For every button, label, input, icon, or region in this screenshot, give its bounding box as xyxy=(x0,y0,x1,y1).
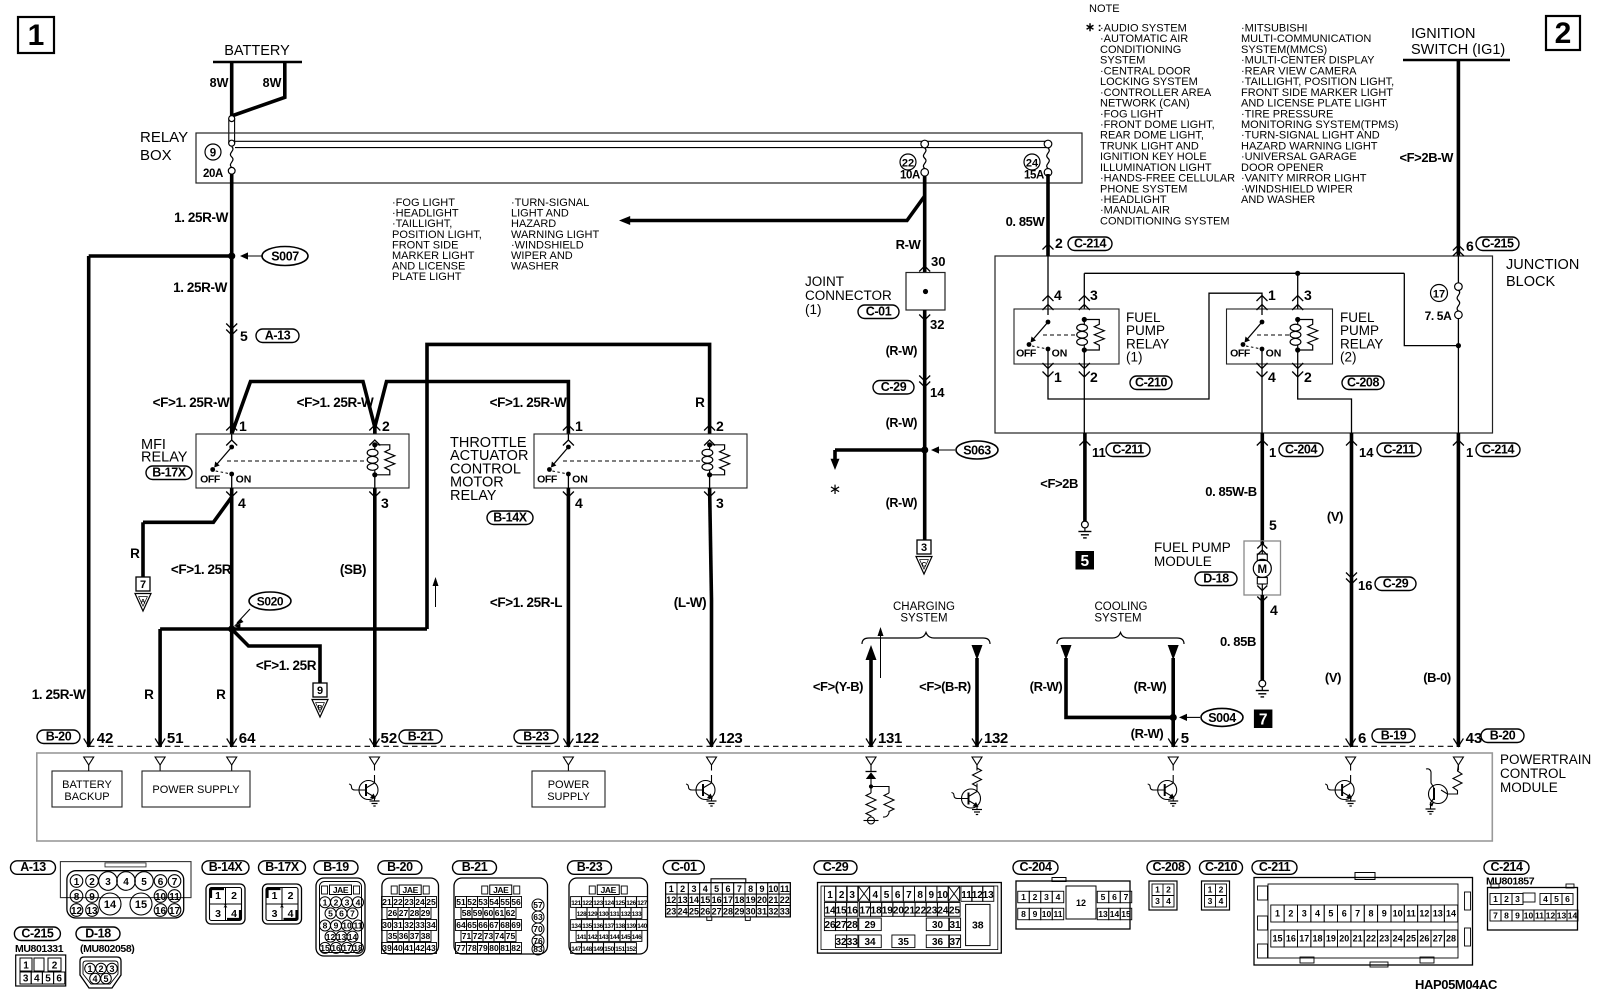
svg-text:20: 20 xyxy=(1339,934,1349,944)
svg-text:x: x xyxy=(280,903,284,910)
svg-text:19: 19 xyxy=(746,895,756,905)
svg-text:5: 5 xyxy=(714,884,719,894)
svg-text:29: 29 xyxy=(734,907,744,917)
svg-text:36: 36 xyxy=(399,931,409,941)
svg-text:C-204: C-204 xyxy=(1285,442,1317,456)
svg-text:12: 12 xyxy=(666,895,676,905)
svg-text:B-14X: B-14X xyxy=(493,510,527,524)
svg-text:JAE: JAE xyxy=(403,885,419,895)
svg-text:ON: ON xyxy=(1266,348,1282,360)
svg-text:16: 16 xyxy=(712,895,722,905)
svg-text:10: 10 xyxy=(768,884,778,894)
svg-text:2: 2 xyxy=(231,890,237,902)
svg-text:1: 1 xyxy=(1208,885,1213,895)
svg-text:1: 1 xyxy=(74,877,80,888)
svg-text:MU801331: MU801331 xyxy=(15,943,64,955)
svg-text:3: 3 xyxy=(716,495,724,511)
svg-text:122: 122 xyxy=(575,730,599,747)
svg-text:135: 135 xyxy=(582,923,592,930)
svg-text:JAE: JAE xyxy=(333,885,349,895)
svg-text:16: 16 xyxy=(331,943,341,953)
svg-text:6: 6 xyxy=(1565,894,1570,904)
svg-text:12: 12 xyxy=(972,890,984,901)
svg-text:4: 4 xyxy=(238,495,246,511)
svg-text:14: 14 xyxy=(1446,909,1456,919)
svg-text:7: 7 xyxy=(172,877,178,888)
svg-text:C: C xyxy=(922,562,927,569)
svg-text:C-211: C-211 xyxy=(1259,860,1291,874)
svg-text:2: 2 xyxy=(1304,369,1312,385)
svg-text:32: 32 xyxy=(930,317,944,332)
svg-text:126: 126 xyxy=(626,900,636,907)
svg-text:64: 64 xyxy=(239,730,256,747)
svg-text:57: 57 xyxy=(533,900,543,910)
svg-text:<F>1. 25R: <F>1. 25R xyxy=(171,562,232,577)
svg-text:∗: ∗ xyxy=(829,481,842,498)
svg-text:1: 1 xyxy=(87,964,92,974)
svg-text:S020: S020 xyxy=(257,595,284,609)
svg-text:19: 19 xyxy=(882,905,894,916)
svg-text:11: 11 xyxy=(1535,911,1544,921)
svg-text:23: 23 xyxy=(404,897,414,907)
svg-text:16: 16 xyxy=(1286,934,1296,944)
svg-text:28: 28 xyxy=(847,920,859,931)
svg-text:POWER: POWER xyxy=(548,779,590,791)
svg-text:WASHER: WASHER xyxy=(511,261,559,273)
svg-text:22: 22 xyxy=(780,895,790,905)
svg-text:60: 60 xyxy=(484,908,494,918)
svg-text:S063: S063 xyxy=(963,444,991,458)
svg-text:147: 147 xyxy=(571,946,581,953)
svg-text:B-20: B-20 xyxy=(1490,728,1516,742)
svg-text:25: 25 xyxy=(1406,934,1416,944)
svg-text:1: 1 xyxy=(1466,445,1473,460)
svg-text:77: 77 xyxy=(456,943,466,953)
svg-text:(B-0): (B-0) xyxy=(1423,670,1451,685)
svg-text:5: 5 xyxy=(328,909,333,919)
svg-text:17: 17 xyxy=(1433,289,1445,301)
svg-text:22: 22 xyxy=(915,905,927,916)
svg-text:14: 14 xyxy=(930,385,945,400)
svg-text:129: 129 xyxy=(588,911,598,918)
svg-text:(R-W): (R-W) xyxy=(1030,679,1063,694)
svg-text:38: 38 xyxy=(421,931,431,941)
svg-text:14: 14 xyxy=(104,899,117,911)
svg-text:6: 6 xyxy=(1466,238,1474,254)
svg-text:8: 8 xyxy=(1504,911,1509,921)
svg-text:3: 3 xyxy=(1302,909,1307,919)
svg-text:BATTERY: BATTERY xyxy=(224,43,290,59)
svg-text:C-01: C-01 xyxy=(866,304,892,318)
svg-text:42: 42 xyxy=(97,730,114,747)
svg-text:134: 134 xyxy=(571,923,581,930)
svg-text:20A: 20A xyxy=(203,168,223,180)
svg-text:(R-W): (R-W) xyxy=(1131,726,1164,741)
svg-text:3: 3 xyxy=(105,877,111,888)
svg-text:139: 139 xyxy=(626,923,636,930)
svg-text:124: 124 xyxy=(604,900,614,907)
svg-text:1: 1 xyxy=(272,890,278,902)
svg-text:20: 20 xyxy=(893,905,905,916)
svg-text:12: 12 xyxy=(1076,898,1086,908)
svg-text:A-13: A-13 xyxy=(20,860,46,874)
svg-text:R-W: R-W xyxy=(896,237,922,252)
svg-text:13: 13 xyxy=(337,932,347,942)
svg-text:10: 10 xyxy=(1524,911,1534,921)
svg-text:A-13: A-13 xyxy=(265,328,291,342)
svg-text:2: 2 xyxy=(1219,885,1224,895)
svg-text:22: 22 xyxy=(1366,934,1376,944)
svg-text:3: 3 xyxy=(1155,896,1160,906)
svg-text:2: 2 xyxy=(1090,369,1098,385)
svg-text:R: R xyxy=(695,395,705,410)
svg-text:10: 10 xyxy=(342,921,352,931)
svg-text:33: 33 xyxy=(415,920,425,930)
svg-text:B-23: B-23 xyxy=(577,860,603,874)
svg-text:CONTROL: CONTROL xyxy=(1500,766,1566,781)
svg-text:143: 143 xyxy=(599,934,609,941)
svg-text:18: 18 xyxy=(1313,934,1323,944)
svg-text:131: 131 xyxy=(610,911,620,918)
svg-text:55: 55 xyxy=(500,897,510,907)
svg-text:65: 65 xyxy=(467,920,477,930)
svg-text:16: 16 xyxy=(1358,578,1372,593)
svg-text:14: 14 xyxy=(689,895,699,905)
svg-text:72: 72 xyxy=(473,931,483,941)
svg-text:27: 27 xyxy=(712,907,722,917)
svg-text:29: 29 xyxy=(421,908,431,918)
svg-text:26: 26 xyxy=(824,920,836,931)
svg-text:9: 9 xyxy=(760,884,765,894)
svg-text:7: 7 xyxy=(350,909,355,919)
svg-text:7: 7 xyxy=(1493,911,1498,921)
svg-text:CHARGING: CHARGING xyxy=(893,601,955,613)
svg-text:POWERTRAIN: POWERTRAIN xyxy=(1500,752,1591,767)
svg-text:7: 7 xyxy=(140,579,146,591)
svg-text:1: 1 xyxy=(827,890,833,901)
svg-text:JOINT: JOINT xyxy=(805,274,844,289)
svg-text:22: 22 xyxy=(902,158,914,170)
svg-text:59: 59 xyxy=(473,908,483,918)
svg-text:14: 14 xyxy=(824,905,836,916)
svg-text:8: 8 xyxy=(323,921,328,931)
svg-text:7: 7 xyxy=(1124,892,1129,902)
svg-text:13: 13 xyxy=(1098,909,1108,919)
svg-text:15: 15 xyxy=(700,895,710,905)
svg-text:4: 4 xyxy=(1543,894,1548,904)
svg-text:11: 11 xyxy=(169,892,180,903)
svg-text:15: 15 xyxy=(135,899,147,911)
svg-text:OFF: OFF xyxy=(1016,348,1037,360)
svg-text:10: 10 xyxy=(937,890,949,901)
svg-text:OFF: OFF xyxy=(200,474,221,486)
svg-text:B-17X: B-17X xyxy=(265,860,299,874)
svg-text:1: 1 xyxy=(575,418,583,434)
svg-text:3: 3 xyxy=(1208,896,1213,906)
svg-text:15: 15 xyxy=(835,905,847,916)
svg-text:32: 32 xyxy=(404,920,414,930)
svg-text:23: 23 xyxy=(926,905,938,916)
svg-text:13: 13 xyxy=(1433,909,1443,919)
svg-text:69: 69 xyxy=(511,920,521,930)
svg-text:PLATE LIGHT: PLATE LIGHT xyxy=(392,271,462,283)
svg-text:16: 16 xyxy=(155,906,167,917)
svg-text:26: 26 xyxy=(700,907,710,917)
svg-text:6: 6 xyxy=(56,974,62,985)
svg-text:17: 17 xyxy=(342,943,352,953)
svg-text:2: 2 xyxy=(716,418,724,434)
svg-text:140: 140 xyxy=(637,923,647,930)
svg-text:ON: ON xyxy=(1052,348,1068,360)
svg-text:52: 52 xyxy=(381,730,398,747)
svg-text:132: 132 xyxy=(621,911,631,918)
svg-text:4: 4 xyxy=(34,974,40,985)
svg-text:5: 5 xyxy=(1328,909,1333,919)
svg-text:82: 82 xyxy=(511,943,521,953)
svg-text:2: 2 xyxy=(382,418,390,434)
svg-text:C-214: C-214 xyxy=(1074,236,1106,250)
svg-text:137: 137 xyxy=(604,923,614,930)
svg-text:SYSTEM: SYSTEM xyxy=(1094,613,1141,625)
svg-text:MODULE: MODULE xyxy=(1500,780,1558,795)
svg-text:123: 123 xyxy=(593,900,603,907)
svg-text:21: 21 xyxy=(768,895,778,905)
svg-text:B-19: B-19 xyxy=(1381,728,1407,742)
svg-text:9: 9 xyxy=(334,921,339,931)
svg-text:22: 22 xyxy=(393,897,403,907)
svg-text:3: 3 xyxy=(1304,287,1312,303)
svg-text:27: 27 xyxy=(399,908,409,918)
svg-text:150: 150 xyxy=(604,946,614,953)
svg-text:10: 10 xyxy=(1042,909,1052,919)
svg-text:30: 30 xyxy=(932,920,944,931)
svg-text:29: 29 xyxy=(864,920,876,931)
svg-text:133: 133 xyxy=(632,911,642,918)
svg-text:1: 1 xyxy=(1493,894,1498,904)
svg-text:MU801857: MU801857 xyxy=(1486,876,1535,888)
svg-text:OFF: OFF xyxy=(1230,348,1251,360)
svg-text:B-21: B-21 xyxy=(408,729,434,743)
svg-text:51: 51 xyxy=(167,730,184,747)
svg-text:(1): (1) xyxy=(1126,350,1143,365)
svg-text:13: 13 xyxy=(86,906,98,917)
svg-text:12: 12 xyxy=(71,906,83,917)
svg-text:9: 9 xyxy=(929,890,935,901)
svg-text:21: 21 xyxy=(382,897,392,907)
svg-text:8: 8 xyxy=(917,890,923,901)
svg-text:M: M xyxy=(1258,564,1268,576)
svg-text:4: 4 xyxy=(575,495,583,511)
svg-text:6: 6 xyxy=(895,890,901,901)
svg-text:13: 13 xyxy=(983,890,995,901)
svg-text:132: 132 xyxy=(984,730,1008,747)
svg-text:2: 2 xyxy=(1555,17,1572,50)
svg-text:8: 8 xyxy=(74,892,80,903)
svg-text:RELAY: RELAY xyxy=(140,129,188,146)
svg-text:C-208: C-208 xyxy=(1152,860,1184,874)
svg-text:BOX: BOX xyxy=(140,147,172,164)
svg-text:C-211: C-211 xyxy=(1383,442,1415,456)
svg-text:152: 152 xyxy=(626,946,636,953)
svg-text:34: 34 xyxy=(426,920,436,930)
svg-text:1: 1 xyxy=(23,961,29,972)
svg-text:80: 80 xyxy=(489,943,499,953)
svg-text:2: 2 xyxy=(839,890,845,901)
svg-text:2: 2 xyxy=(89,877,95,888)
svg-text:1: 1 xyxy=(1021,892,1026,902)
svg-text:(R-W): (R-W) xyxy=(886,344,918,358)
svg-text:5: 5 xyxy=(1554,894,1559,904)
svg-text:21: 21 xyxy=(1353,934,1363,944)
svg-text:5: 5 xyxy=(103,974,108,984)
svg-text:123: 123 xyxy=(719,730,743,747)
svg-text:144: 144 xyxy=(610,934,620,941)
svg-text:18: 18 xyxy=(734,895,744,905)
svg-text:B: B xyxy=(318,705,323,712)
svg-text:74: 74 xyxy=(495,931,505,941)
svg-text:1. 25R-W: 1. 25R-W xyxy=(32,687,86,702)
svg-text:27: 27 xyxy=(1433,934,1443,944)
svg-text:11: 11 xyxy=(1406,909,1416,919)
svg-text:14: 14 xyxy=(1359,445,1374,460)
svg-text:149: 149 xyxy=(593,946,603,953)
svg-text:0. 85W-B: 0. 85W-B xyxy=(1205,484,1256,499)
svg-text:B-14X: B-14X xyxy=(209,860,243,874)
svg-text:1: 1 xyxy=(215,890,221,902)
svg-text:16: 16 xyxy=(847,905,859,916)
svg-text:5: 5 xyxy=(45,974,51,985)
svg-text:S004: S004 xyxy=(1208,711,1236,725)
svg-text:3: 3 xyxy=(109,964,114,974)
svg-text:14: 14 xyxy=(348,932,358,942)
svg-text:R: R xyxy=(144,687,154,702)
svg-text:20: 20 xyxy=(757,895,767,905)
svg-text:11: 11 xyxy=(354,921,363,931)
svg-text:17: 17 xyxy=(859,905,871,916)
svg-text:24: 24 xyxy=(678,907,688,917)
svg-text:41: 41 xyxy=(404,943,414,953)
svg-text:7: 7 xyxy=(1355,909,1360,919)
svg-text:HAP05M04AC: HAP05M04AC xyxy=(1415,977,1498,992)
svg-text:4: 4 xyxy=(1166,896,1171,906)
svg-text:R: R xyxy=(130,546,140,561)
svg-text:B-23: B-23 xyxy=(523,729,549,743)
svg-text:5: 5 xyxy=(1101,892,1106,902)
svg-text:B-20: B-20 xyxy=(387,860,413,874)
svg-text:18: 18 xyxy=(871,905,883,916)
svg-text:24: 24 xyxy=(937,905,949,916)
svg-text:43: 43 xyxy=(1466,730,1483,747)
svg-text:2: 2 xyxy=(98,964,103,974)
svg-text:12: 12 xyxy=(1546,911,1556,921)
svg-text:21: 21 xyxy=(904,905,916,916)
svg-text:3: 3 xyxy=(691,884,696,894)
svg-text:146: 146 xyxy=(632,934,642,941)
svg-text:<F>1. 25R: <F>1. 25R xyxy=(256,658,317,673)
svg-text:(1): (1) xyxy=(805,302,822,317)
svg-text:136: 136 xyxy=(593,923,603,930)
svg-text:51: 51 xyxy=(456,897,466,907)
svg-text:78: 78 xyxy=(467,943,477,953)
svg-text:75: 75 xyxy=(506,931,516,941)
svg-text:JAE: JAE xyxy=(493,885,509,895)
svg-text:2: 2 xyxy=(1033,892,1038,902)
svg-text:S007: S007 xyxy=(271,250,299,264)
svg-text:31: 31 xyxy=(949,920,961,931)
svg-text:28: 28 xyxy=(1446,934,1456,944)
svg-text:37: 37 xyxy=(949,937,961,948)
svg-text:2: 2 xyxy=(52,961,58,972)
svg-text:4: 4 xyxy=(123,877,129,888)
svg-text:9: 9 xyxy=(1382,909,1387,919)
svg-text:BATTERY: BATTERY xyxy=(62,779,112,791)
svg-text:R: R xyxy=(216,687,226,702)
svg-text:ON: ON xyxy=(572,474,588,486)
svg-text:68: 68 xyxy=(500,920,510,930)
svg-text:3: 3 xyxy=(921,542,927,554)
svg-text:2: 2 xyxy=(288,890,294,902)
svg-text:C-215: C-215 xyxy=(1481,236,1513,250)
svg-text:8: 8 xyxy=(748,884,753,894)
svg-text:128: 128 xyxy=(577,911,587,918)
svg-text:6: 6 xyxy=(725,884,730,894)
svg-text:9: 9 xyxy=(317,685,323,697)
svg-text:23: 23 xyxy=(1379,934,1389,944)
svg-text:C-208: C-208 xyxy=(1347,375,1379,389)
svg-text:67: 67 xyxy=(489,920,499,930)
svg-text:5: 5 xyxy=(1181,730,1189,747)
svg-text:79: 79 xyxy=(478,943,488,953)
svg-text:13: 13 xyxy=(678,895,688,905)
svg-text:<F>1. 25R-W: <F>1. 25R-W xyxy=(153,395,230,410)
svg-text:4: 4 xyxy=(1056,892,1061,902)
svg-text:B-19: B-19 xyxy=(323,860,349,874)
svg-text:6: 6 xyxy=(1342,909,1347,919)
svg-text:70: 70 xyxy=(533,924,543,934)
svg-text:10: 10 xyxy=(1393,909,1403,919)
svg-text:8W: 8W xyxy=(210,76,229,90)
svg-text:C-01: C-01 xyxy=(671,860,697,874)
svg-text:3: 3 xyxy=(215,908,221,920)
svg-text:58: 58 xyxy=(462,908,472,918)
svg-text:(SB): (SB) xyxy=(340,562,366,577)
svg-text:30: 30 xyxy=(746,907,756,917)
svg-text:1: 1 xyxy=(1275,909,1280,919)
svg-text:142: 142 xyxy=(588,934,598,941)
svg-text:5: 5 xyxy=(141,877,147,888)
svg-text:15: 15 xyxy=(1121,909,1131,919)
svg-text:C-211: C-211 xyxy=(1112,442,1144,456)
svg-text:33: 33 xyxy=(847,937,859,948)
svg-text:130: 130 xyxy=(599,911,609,918)
svg-text:61: 61 xyxy=(495,908,505,918)
svg-text:SYSTEM: SYSTEM xyxy=(900,613,947,625)
svg-text:FUEL PUMP: FUEL PUMP xyxy=(1154,540,1231,555)
svg-text:54: 54 xyxy=(489,897,499,907)
svg-text:4: 4 xyxy=(703,884,708,894)
svg-text:12: 12 xyxy=(1419,909,1429,919)
svg-text:1: 1 xyxy=(239,418,247,434)
svg-text:66: 66 xyxy=(478,920,488,930)
svg-text:26: 26 xyxy=(1419,934,1429,944)
svg-text:<F>1. 25R-L: <F>1. 25R-L xyxy=(490,595,562,610)
svg-text:145: 145 xyxy=(621,934,631,941)
svg-text:COOLING: COOLING xyxy=(1094,601,1147,613)
svg-text:11: 11 xyxy=(961,890,972,901)
svg-text:64: 64 xyxy=(456,920,466,930)
svg-text:34: 34 xyxy=(864,937,876,948)
svg-text:28: 28 xyxy=(723,907,733,917)
